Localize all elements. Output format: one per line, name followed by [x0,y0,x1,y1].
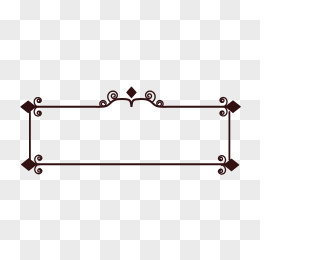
top-centre flourish: left big spiral [108,91,118,102]
bottom-left corner ornament: diamond and double curls [22,155,42,173]
wire: left rail [29,112,31,159]
top-right corner ornament: diamond and double curls [220,98,240,116]
wire: right rail [228,112,230,160]
wire: bottom rail [29,163,232,165]
wire: top rail with centre flourish sweep (right half) [131,99,234,107]
top-centre flourish: left small loop [100,101,106,107]
bottom-right corner ornament: diamond and double curls [219,156,239,174]
top-centre diamond [127,87,136,98]
top-centre flourish: right small loop [157,101,163,107]
top-left corner ornament: diamond and double curls [21,98,41,116]
top-centre flourish: right big spiral [146,91,156,102]
wire: top rail with centre flourish sweep (left half) [28,99,131,107]
